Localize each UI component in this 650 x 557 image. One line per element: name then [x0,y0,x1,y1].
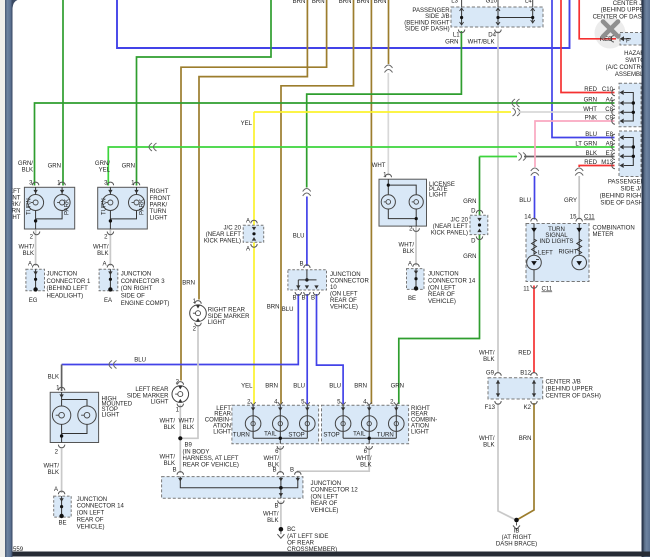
svg-text:TURN: TURN [548,227,565,233]
svg-text:BLU: BLU [585,132,597,138]
svg-text:BLK: BLK [403,249,414,255]
wire: WHT/BLK junction connector 12 to ground BC [280,502,282,529]
svg-text:WHT/BLK: WHT/BLK [468,40,495,46]
wire: BLU from break to combination meter pin 14 [534,176,536,220]
wire: BRN to right rear side marker pin 1 [199,0,307,300]
svg-text:TURN: TURN [233,432,250,438]
svg-text:BRN: BRN [265,384,278,390]
close icon background circle [595,18,626,49]
connector: JUNCTION CONNECTOR 10 [288,262,370,311]
svg-text:YEL: YEL [241,121,253,127]
svg-text:G10: G10 [486,0,498,5]
svg-text:(BEHIND RIGHT: (BEHIND RIGHT [404,20,450,26]
svg-text:RED: RED [584,160,597,166]
svg-text:BLK: BLK [23,251,34,257]
svg-text:WHT/: WHT/ [479,436,495,442]
svg-text:TURN: TURN [27,198,33,215]
wire: GRN hazard A4 to left front pin 3 [35,103,615,186]
svg-text:CONNECTOR 3: CONNECTOR 3 [121,279,166,285]
svg-text:VEHICLE): VEHICLE) [428,299,456,305]
svg-text:G9: G9 [486,371,495,377]
junction block: PASSENGER SIDE J/B (top) [404,0,543,46]
wire: GRN through J/C 20 to right rear combination TURN pin 2 [399,157,480,405]
svg-text:GRN: GRN [122,164,135,170]
wire: WHT/BLK left rear side marker pin 1 to junction connector 12 [179,405,181,474]
svg-text:J/C 20: J/C 20 [224,226,242,232]
break symbol on LT GRN A9 wire [149,143,157,151]
svg-text:(NEAR LEFT: (NEAR LEFT [433,224,469,230]
svg-text:PARK: PARK [139,199,145,215]
wire: YEL horizontal toward hazard C8 [254,111,511,113]
svg-text:BLK: BLK [586,151,597,157]
wire: YEL from corner through J/C 20 to left rear combination TURN pin 2 [253,112,255,404]
svg-text:LIGHT: LIGHT [429,192,447,198]
svg-text:BRN: BRN [374,0,387,5]
connector: J/C 20 (NEAR LEFT KICK PANEL) right, on GRN wire [431,199,488,260]
svg-text:BLK: BLK [183,425,194,431]
svg-text:PARK: PARK [65,199,71,215]
svg-text:TURN: TURN [101,198,107,215]
svg-text:YEL: YEL [241,384,253,390]
svg-text:BRN: BRN [312,0,325,5]
svg-text:GRN: GRN [463,254,476,260]
component: LEFT REAR COMBINATION LIGHT [232,402,319,449]
svg-text:RIGHT: RIGHT [150,189,169,195]
svg-text:VEHICLE): VEHICLE) [330,304,358,310]
component: RIGHT REAR SIDE MARKER LIGHT [182,281,250,333]
svg-text:RIGHT REAR: RIGHT REAR [208,308,246,314]
svg-text:BLU: BLU [293,384,305,390]
svg-text:JUNCTION: JUNCTION [121,271,152,277]
svg-text:BC: BC [287,527,296,533]
svg-text:SIDE OF: SIDE OF [121,294,145,300]
svg-text:TURN: TURN [150,209,167,215]
svg-text:VEHICLE): VEHICLE) [311,508,339,514]
svg-text:559: 559 [13,547,24,553]
svg-text:BLK: BLK [360,462,371,468]
svg-text:BLK: BLK [22,168,33,174]
svg-text:M13: M13 [601,160,613,166]
wire: WHT/BLK high mounted stop light pin 2 to junction connector 14 [61,449,63,494]
svg-text:JUNCTION: JUNCTION [428,272,459,278]
svg-text:SIDE J/B: SIDE J/B [425,14,450,20]
svg-text:STOP: STOP [288,432,304,438]
svg-text:L3: L3 [451,0,458,5]
svg-text:BLK: BLK [267,518,278,524]
svg-text:WHT/: WHT/ [19,245,35,251]
svg-text:LIGHT: LIGHT [208,320,226,326]
svg-text:BE: BE [408,296,416,302]
svg-text:JUNCTION: JUNCTION [311,481,342,487]
wire: WHT/BLK left rear combination pin 6 to junction connector 12 [279,446,281,473]
wire: GRN from J/B L1 becoming BLU to junction connector 10 [307,31,462,188]
svg-text:BRN: BRN [354,384,367,390]
svg-text:BLU: BLU [134,358,146,364]
svg-text:GRN: GRN [48,164,61,170]
svg-text:(BEHIND UPPER: (BEHIND UPPER [601,8,649,14]
svg-text:REAR OF: REAR OF [311,501,338,507]
svg-text:C11: C11 [584,215,595,221]
svg-text:PASSENGER: PASSENGER [412,8,450,14]
svg-text:REAR OF: REAR OF [428,292,455,298]
svg-text:(BEHIND RIGHT: (BEHIND RIGHT [600,194,646,200]
svg-text:BLK: BLK [48,375,59,381]
svg-text:BRN: BRN [519,436,532,442]
svg-text:L4: L4 [525,0,532,5]
svg-text:WHT/: WHT/ [356,456,372,462]
svg-text:CONNECTOR 1: CONNECTOR 1 [47,279,92,285]
svg-text:BLK: BLK [164,425,175,431]
component: LEFT REAR SIDE MARKER LIGHT [127,380,189,414]
svg-text:BLK: BLK [164,461,175,467]
svg-text:WHT/: WHT/ [160,455,176,461]
svg-text:KICK PANEL): KICK PANEL) [431,231,468,237]
svg-text:EG: EG [29,298,38,304]
component: LEFT FRONT PARK/TURN LIGHT [24,182,74,235]
break symbol on RED/GRY wire [575,168,583,176]
svg-text:BLK: BLK [483,443,494,449]
svg-text:WHT/: WHT/ [264,456,280,462]
svg-text:BLK: BLK [48,470,59,476]
svg-text:WHT: WHT [583,107,597,113]
component: RIGHT FRONT PARK/TURN LIGHT [98,182,148,235]
svg-text:CONNECTOR 12: CONNECTOR 12 [311,487,359,493]
svg-text:CONNECTOR 14: CONNECTOR 14 [428,278,476,284]
wire: RED to hazard switch pin C10 [561,0,615,93]
svg-text:GRN/: GRN/ [18,161,33,167]
svg-text:JUNCTION: JUNCTION [77,497,108,503]
svg-text:L1: L1 [453,33,460,39]
svg-text:GRY: GRY [564,198,577,204]
svg-text:(AT LEFT SIDE: (AT LEFT SIDE [287,534,328,540]
svg-text:METER: METER [593,232,615,238]
svg-text:LT GRN: LT GRN [575,142,597,148]
ground: at right dash brace [496,518,537,548]
connector: JUNCTION CONNECTOR 12 [162,472,359,514]
svg-text:WHT/: WHT/ [93,245,109,251]
svg-text:RIGHT: RIGHT [559,250,578,256]
wire: WHT/BLK left front pin 2 to junction connector 1 [35,230,37,267]
svg-text:(BEHIND UPPER: (BEHIND UPPER [546,387,594,393]
svg-text:TAIL: TAIL [264,431,277,437]
svg-text:BLU: BLU [293,234,305,240]
svg-text:BLU: BLU [282,307,294,313]
svg-text:15: 15 [570,215,577,221]
svg-text:CENTER OF DASH): CENTER OF DASH) [593,14,648,20]
close icon X strokes [603,22,618,37]
svg-text:10: 10 [330,285,337,291]
svg-text:PARK/: PARK/ [150,202,168,208]
svg-text:WHT/: WHT/ [160,419,176,425]
svg-text:PASSENGER: PASSENGER [608,180,646,186]
svg-text:(ON LEFT: (ON LEFT [428,285,456,291]
svg-text:E7: E7 [606,151,614,157]
wire: RED to hazard switch pin F [579,0,616,39]
wire: GRN to right front park/turn pin 1 [137,0,272,186]
svg-text:RED: RED [518,351,531,357]
break symbol on PNK/BLU wire [531,168,539,176]
svg-text:F13: F13 [485,405,496,411]
svg-text:11: 11 [523,287,530,293]
svg-text:IND LIGHTS: IND LIGHTS [540,239,574,245]
svg-text:BLU: BLU [519,198,531,204]
svg-text:CENTER OF DASH): CENTER OF DASH) [546,394,601,400]
svg-text:SIDE OF DASH): SIDE OF DASH) [600,201,645,207]
svg-text:LIGHT: LIGHT [151,400,169,406]
svg-text:LIGHT: LIGHT [150,215,168,221]
svg-text:STOP: STOP [323,432,339,438]
svg-text:JUNCTION: JUNCTION [47,271,78,277]
svg-text:TAIL: TAIL [353,431,366,437]
wire: BLU inverted-U hazard feed [117,0,570,48]
connector: J/C 20 (NEAR LEFT KICK PANEL) left, on YEL wire [204,219,264,253]
svg-text:LIGHT: LIGHT [213,430,231,436]
svg-text:14: 14 [524,215,531,221]
svg-text:B: B [274,504,278,510]
svg-text:LIGHT: LIGHT [102,412,120,418]
svg-text:B: B [272,468,276,474]
svg-text:WHT/: WHT/ [263,512,279,518]
svg-text:BRN: BRN [182,281,195,287]
svg-text:D4: D4 [488,33,496,39]
svg-text:VEHICLE): VEHICLE) [77,524,105,530]
svg-text:BRN: BRN [357,0,370,5]
svg-text:C10: C10 [602,87,614,93]
wire: GRY from break to combination meter pin 15 [578,176,580,220]
svg-text:LEFT REAR: LEFT REAR [135,387,169,393]
wire: WHT to license plate light pin 1 [387,73,389,176]
svg-text:CONNECTOR: CONNECTOR [330,278,369,284]
svg-text:GRN: GRN [445,40,458,46]
connector: hazard switch connector upper group C10 A4 C8 C9 [583,83,641,127]
svg-text:IB: IB [514,529,520,535]
svg-text:BLK: BLK [483,357,494,363]
svg-text:BRN: BRN [339,0,352,5]
break symbol on GRN/BLK wire [519,153,527,161]
wire: BRN upper segment above break [388,0,390,64]
svg-text:BRN: BRN [293,0,306,5]
svg-text:CONNECTOR 14: CONNECTOR 14 [77,504,125,510]
svg-text:HARNESS, AT LEFT: HARNESS, AT LEFT [183,456,239,462]
svg-text:PNK: PNK [585,116,597,122]
connector: hazard switch connector lower group E8 A9 E7 M13 [575,131,641,177]
svg-text:BE: BE [59,521,67,527]
svg-text:B: B [292,296,296,302]
svg-text:WHT/: WHT/ [44,464,60,470]
splice B9 dot [178,436,182,440]
break symbol on GRN/BLU wire [303,189,311,197]
svg-text:B: B [301,296,305,302]
svg-text:(ON LEFT: (ON LEFT [311,495,339,501]
svg-text:C8: C8 [605,107,613,113]
component: HIGH MOUNTED STOP LIGHT [48,375,133,448]
connector: JUNCTION CONNECTOR 14 (right, license) [407,262,476,306]
svg-text:GRN: GRN [391,384,404,390]
svg-text:OF REAR: OF REAR [287,540,315,546]
component: COMBINATION METER turn signal ind lights [523,215,635,293]
svg-text:(ON LEFT: (ON LEFT [77,511,105,517]
break symbol on BRN/WHT wire [385,65,393,73]
svg-text:COMBINATION: COMBINATION [593,226,635,232]
svg-text:REAR OF: REAR OF [330,298,357,304]
wire: BRN to left rear side marker pin 2 [181,0,327,381]
wire: RED combination meter pin 11 to center J/B B12 [533,286,535,374]
wire: BLU junction 10 to right rear combination STOP pin 5 [317,294,344,404]
component: RIGHT REAR COMBINATION LIGHT [322,402,409,449]
connector: JUNCTION CONNECTOR 1 [26,264,91,304]
break symbol on YEL/WHT wire [513,108,521,116]
wire: WHT/BLK right front pin 2 to junction connector 3 [109,230,111,267]
wire: WHT/BLK from center J/B F13 to ground [498,403,516,520]
svg-text:B: B [172,468,176,474]
svg-text:SIDE MARKER: SIDE MARKER [127,393,169,399]
wire: PNK from hazard C9 down [535,121,615,167]
bottom dark bar [13,552,650,557]
svg-text:SIDE J/B: SIDE J/B [620,187,645,193]
svg-text:(BEHIND LEFT: (BEHIND LEFT [47,286,89,292]
svg-text:E8: E8 [606,132,614,138]
svg-text:F: F [626,39,630,45]
wire: GRN vertical to left front park/turn pin 1 [62,0,64,186]
svg-text:FRONT: FRONT [150,196,171,202]
svg-text:(NEAR LEFT: (NEAR LEFT [206,232,242,238]
svg-text:REAR OF: REAR OF [77,518,104,524]
svg-text:B9: B9 [185,443,193,449]
svg-text:C9: C9 [605,116,613,122]
svg-text:WHT/: WHT/ [399,243,415,249]
svg-text:SIDE MARKER: SIDE MARKER [208,314,250,320]
connector: hazard switch pin F box [600,33,642,46]
svg-text:(ON RIGHT: (ON RIGHT [121,286,153,292]
svg-text:LIGHT: LIGHT [411,430,429,436]
wire: WHT/BLK from J/B D4 down to center J/B G9 [497,31,499,373]
svg-text:KICK PANEL): KICK PANEL) [204,239,241,245]
svg-text:HEADLIGHT): HEADLIGHT) [47,294,84,300]
wire: BLK to high mounted stop light pin 1 [61,365,63,392]
component: LICENSE PLATE LIGHT [379,174,455,231]
wire: WHT/BLK license plate light pin 2 to junction connector 14 [415,227,417,266]
svg-text:GRN/: GRN/ [95,161,110,167]
svg-text:DASH BRACE): DASH BRACE) [496,541,537,547]
wire: BLU to hazard switch pin E8 [552,0,615,138]
connector: JUNCTION CONNECTOR 14 (left, under stop light) [54,491,125,530]
svg-text:BLU: BLU [329,384,341,390]
wire: WHT/BLK right rear side marker pin 2 to splice B9 [181,325,198,438]
svg-text:RED: RED [584,87,597,93]
wire: WHT/BLK right rear combination pin 6 to junction connector 12 [298,446,369,473]
wire: BLU junction 10 to left rear combination STOP pin 5 [306,294,308,404]
svg-text:GRN: GRN [463,199,476,205]
svg-text:B12: B12 [520,371,531,377]
svg-text:EA: EA [104,298,113,304]
wire: BLU from break to junction connector 10 pin B [306,197,308,267]
wire: RED from hazard M13 down [579,166,614,168]
svg-text:D: D [471,239,476,245]
break symbol on BLU horizontal [109,361,117,369]
svg-text:B: B [299,262,303,268]
wire: GRN horizontal toward hazard E7 [480,156,518,158]
wire: BLK from break to hazard pin E7 [524,156,615,158]
svg-text:BRN: BRN [267,305,280,311]
svg-text:SIDE OF DASH): SIDE OF DASH) [405,27,450,33]
svg-text:(AT RIGHT: (AT RIGHT [502,535,532,541]
svg-text:SIGNAL: SIGNAL [545,233,568,239]
svg-text:REAR OF VEHICLE): REAR OF VEHICLE) [183,463,239,469]
svg-text:LEFT: LEFT [538,251,553,257]
wire: BRN to right rear combination TAIL pin 4 [370,0,372,404]
svg-text:(IN BODY: (IN BODY [183,450,210,456]
svg-text:YEL: YEL [99,168,111,174]
svg-text:D: D [471,209,476,215]
svg-text:ENGINE COMPT): ENGINE COMPT) [121,301,170,307]
svg-text:K2: K2 [524,405,532,411]
svg-text:B: B [290,468,294,474]
junction block: CENTER J/B [485,371,601,412]
ground: BC at left side of rear crossmember [277,527,337,553]
wire: BRN from center J/B K2 to ground [518,403,535,520]
svg-text:A9: A9 [606,142,614,148]
svg-text:BLK: BLK [97,251,108,257]
wire: BLU horizontal to high mounted stop light [62,294,299,365]
connector: JUNCTION CONNECTOR 3 [99,264,169,307]
svg-text:TURN: TURN [377,432,394,438]
svg-text:WHT/: WHT/ [479,351,495,357]
svg-text:C11: C11 [542,287,553,293]
svg-text:WHT/: WHT/ [179,419,195,425]
wire: LT GRN hazard A9 to right front pin 3 [108,147,614,186]
wire: BRN to left rear combination TAIL pin 4 [281,0,354,404]
svg-text:A4: A4 [606,98,614,104]
svg-text:(ON LEFT: (ON LEFT [330,291,358,297]
svg-text:CENTER J/B: CENTER J/B [546,380,581,386]
break symbol on GRN A4 wire [512,99,520,107]
wire: WHT from break to hazard pin C8 [518,111,615,113]
svg-text:B: B [311,296,315,302]
svg-text:J/C 20: J/C 20 [451,218,469,224]
svg-text:JUNCTION: JUNCTION [330,272,361,278]
svg-text:WHT: WHT [372,163,386,169]
svg-text:GRN: GRN [584,98,597,104]
